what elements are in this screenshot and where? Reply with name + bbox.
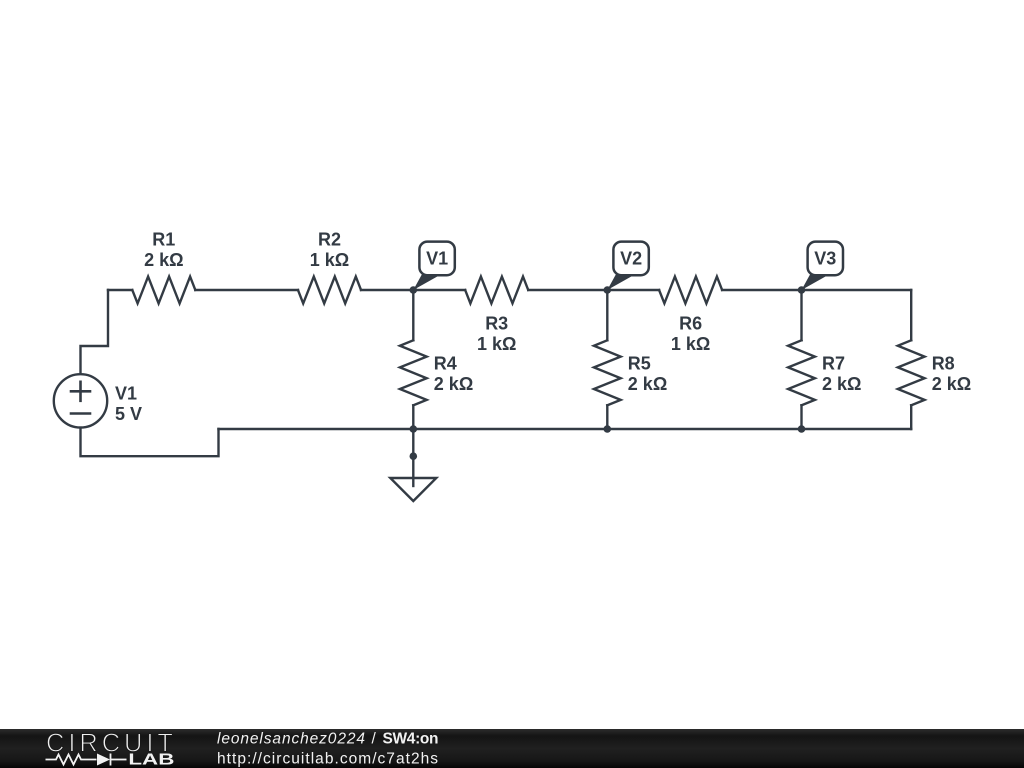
svg-text:2 kΩ: 2 kΩ <box>932 374 971 394</box>
svg-text:V1: V1 <box>426 249 448 269</box>
svg-text:R4: R4 <box>434 354 457 374</box>
junction node V1 bottom bus <box>410 425 418 433</box>
wire top bus: R6 to node V3 <box>722 289 801 291</box>
junction node V2 bottom bus <box>604 425 612 433</box>
resistor R5 <box>594 340 621 405</box>
svg-text:V1: V1 <box>115 384 137 404</box>
wire R7 bottom lead <box>800 405 802 429</box>
svg-text:/: / <box>372 731 377 748</box>
node flag V1 <box>413 242 455 290</box>
resistor R1 <box>132 277 195 304</box>
resistor R4 <box>400 340 427 405</box>
wire left riser from top bus down to source step <box>81 290 109 373</box>
wire bottom bus <box>219 428 912 430</box>
svg-text:1 kΩ: 1 kΩ <box>671 334 710 354</box>
wire top bus: left end to R1 <box>108 289 132 291</box>
svg-text:http://circuitlab.com/c7at2hs: http://circuitlab.com/c7at2hs <box>217 751 438 768</box>
label V1 value 5 V <box>115 384 142 425</box>
label R1 value 2 k&#937; <box>144 230 183 271</box>
svg-text:R6: R6 <box>679 314 702 334</box>
wire top bus: R1 to R2 <box>195 289 298 291</box>
wire R5 bottom lead <box>606 405 608 429</box>
node flag V3 <box>802 242 844 290</box>
resistor R7 <box>788 340 815 405</box>
junction node V3 bottom bus <box>798 425 806 433</box>
label R8 value 2 k&#937; <box>932 354 971 395</box>
resistor R3 <box>465 277 528 304</box>
wire R8 bottom lead <box>910 405 912 429</box>
svg-text:R1: R1 <box>152 230 175 250</box>
svg-text:R8: R8 <box>932 354 955 374</box>
junction ground stub <box>410 452 418 460</box>
wire top bus: R2 to node V1 <box>361 289 413 291</box>
label R6 value 1 k&#937; <box>671 314 710 355</box>
label R2 value 1 k&#937; <box>310 230 349 271</box>
svg-text:SW4:on: SW4:on <box>383 731 439 748</box>
wire top bus: node V2 to R6 <box>607 289 659 291</box>
wire top bus: R3 to node V2 <box>528 289 607 291</box>
ground symbol <box>390 429 436 501</box>
CircuitLab logo resistor-diode glyph <box>46 754 127 766</box>
label R5 value 2 k&#937; <box>628 354 667 395</box>
junction node V3 top <box>798 286 806 294</box>
resistor R6 <box>659 277 722 304</box>
wire top bus: node V1 to R3 <box>413 289 465 291</box>
svg-text:2 kΩ: 2 kΩ <box>628 374 667 394</box>
resistor R2 <box>298 277 361 304</box>
voltage source V1 (5 V) <box>54 374 107 427</box>
svg-text:1 kΩ: 1 kΩ <box>310 250 349 270</box>
svg-text:R7: R7 <box>822 354 845 374</box>
label R3 value 1 k&#937; <box>477 314 516 355</box>
label R4 value 2 k&#937; <box>434 354 473 395</box>
svg-text:V3: V3 <box>814 249 836 269</box>
junction node V2 top <box>604 286 612 294</box>
junction node V1 top <box>410 286 418 294</box>
wire R4 top lead <box>412 290 414 340</box>
wire R7 top lead <box>800 290 802 340</box>
svg-text:V2: V2 <box>620 249 642 269</box>
svg-text:2 kΩ: 2 kΩ <box>434 374 473 394</box>
wire R8 top lead <box>910 290 912 340</box>
wire R5 top lead <box>606 290 608 340</box>
wire source bottom lead and lower detour to bottom bus <box>81 428 219 457</box>
svg-text:R3: R3 <box>485 314 508 334</box>
wire R4 bottom lead <box>412 405 414 429</box>
svg-text:2 kΩ: 2 kΩ <box>822 374 861 394</box>
svg-text:2 kΩ: 2 kΩ <box>144 250 183 270</box>
svg-text:LAB: LAB <box>128 751 174 768</box>
svg-text:R2: R2 <box>318 230 341 250</box>
node flag V2 <box>607 242 649 290</box>
svg-text:1 kΩ: 1 kΩ <box>477 334 516 354</box>
svg-text:leonelsanchez0224: leonelsanchez0224 <box>217 731 365 748</box>
svg-text:R5: R5 <box>628 354 651 374</box>
label R7 value 2 k&#937; <box>822 354 861 395</box>
wire top bus: node V3 to top-right corner <box>802 289 912 291</box>
svg-text:5 V: 5 V <box>115 404 142 424</box>
resistor R8 <box>898 340 925 405</box>
